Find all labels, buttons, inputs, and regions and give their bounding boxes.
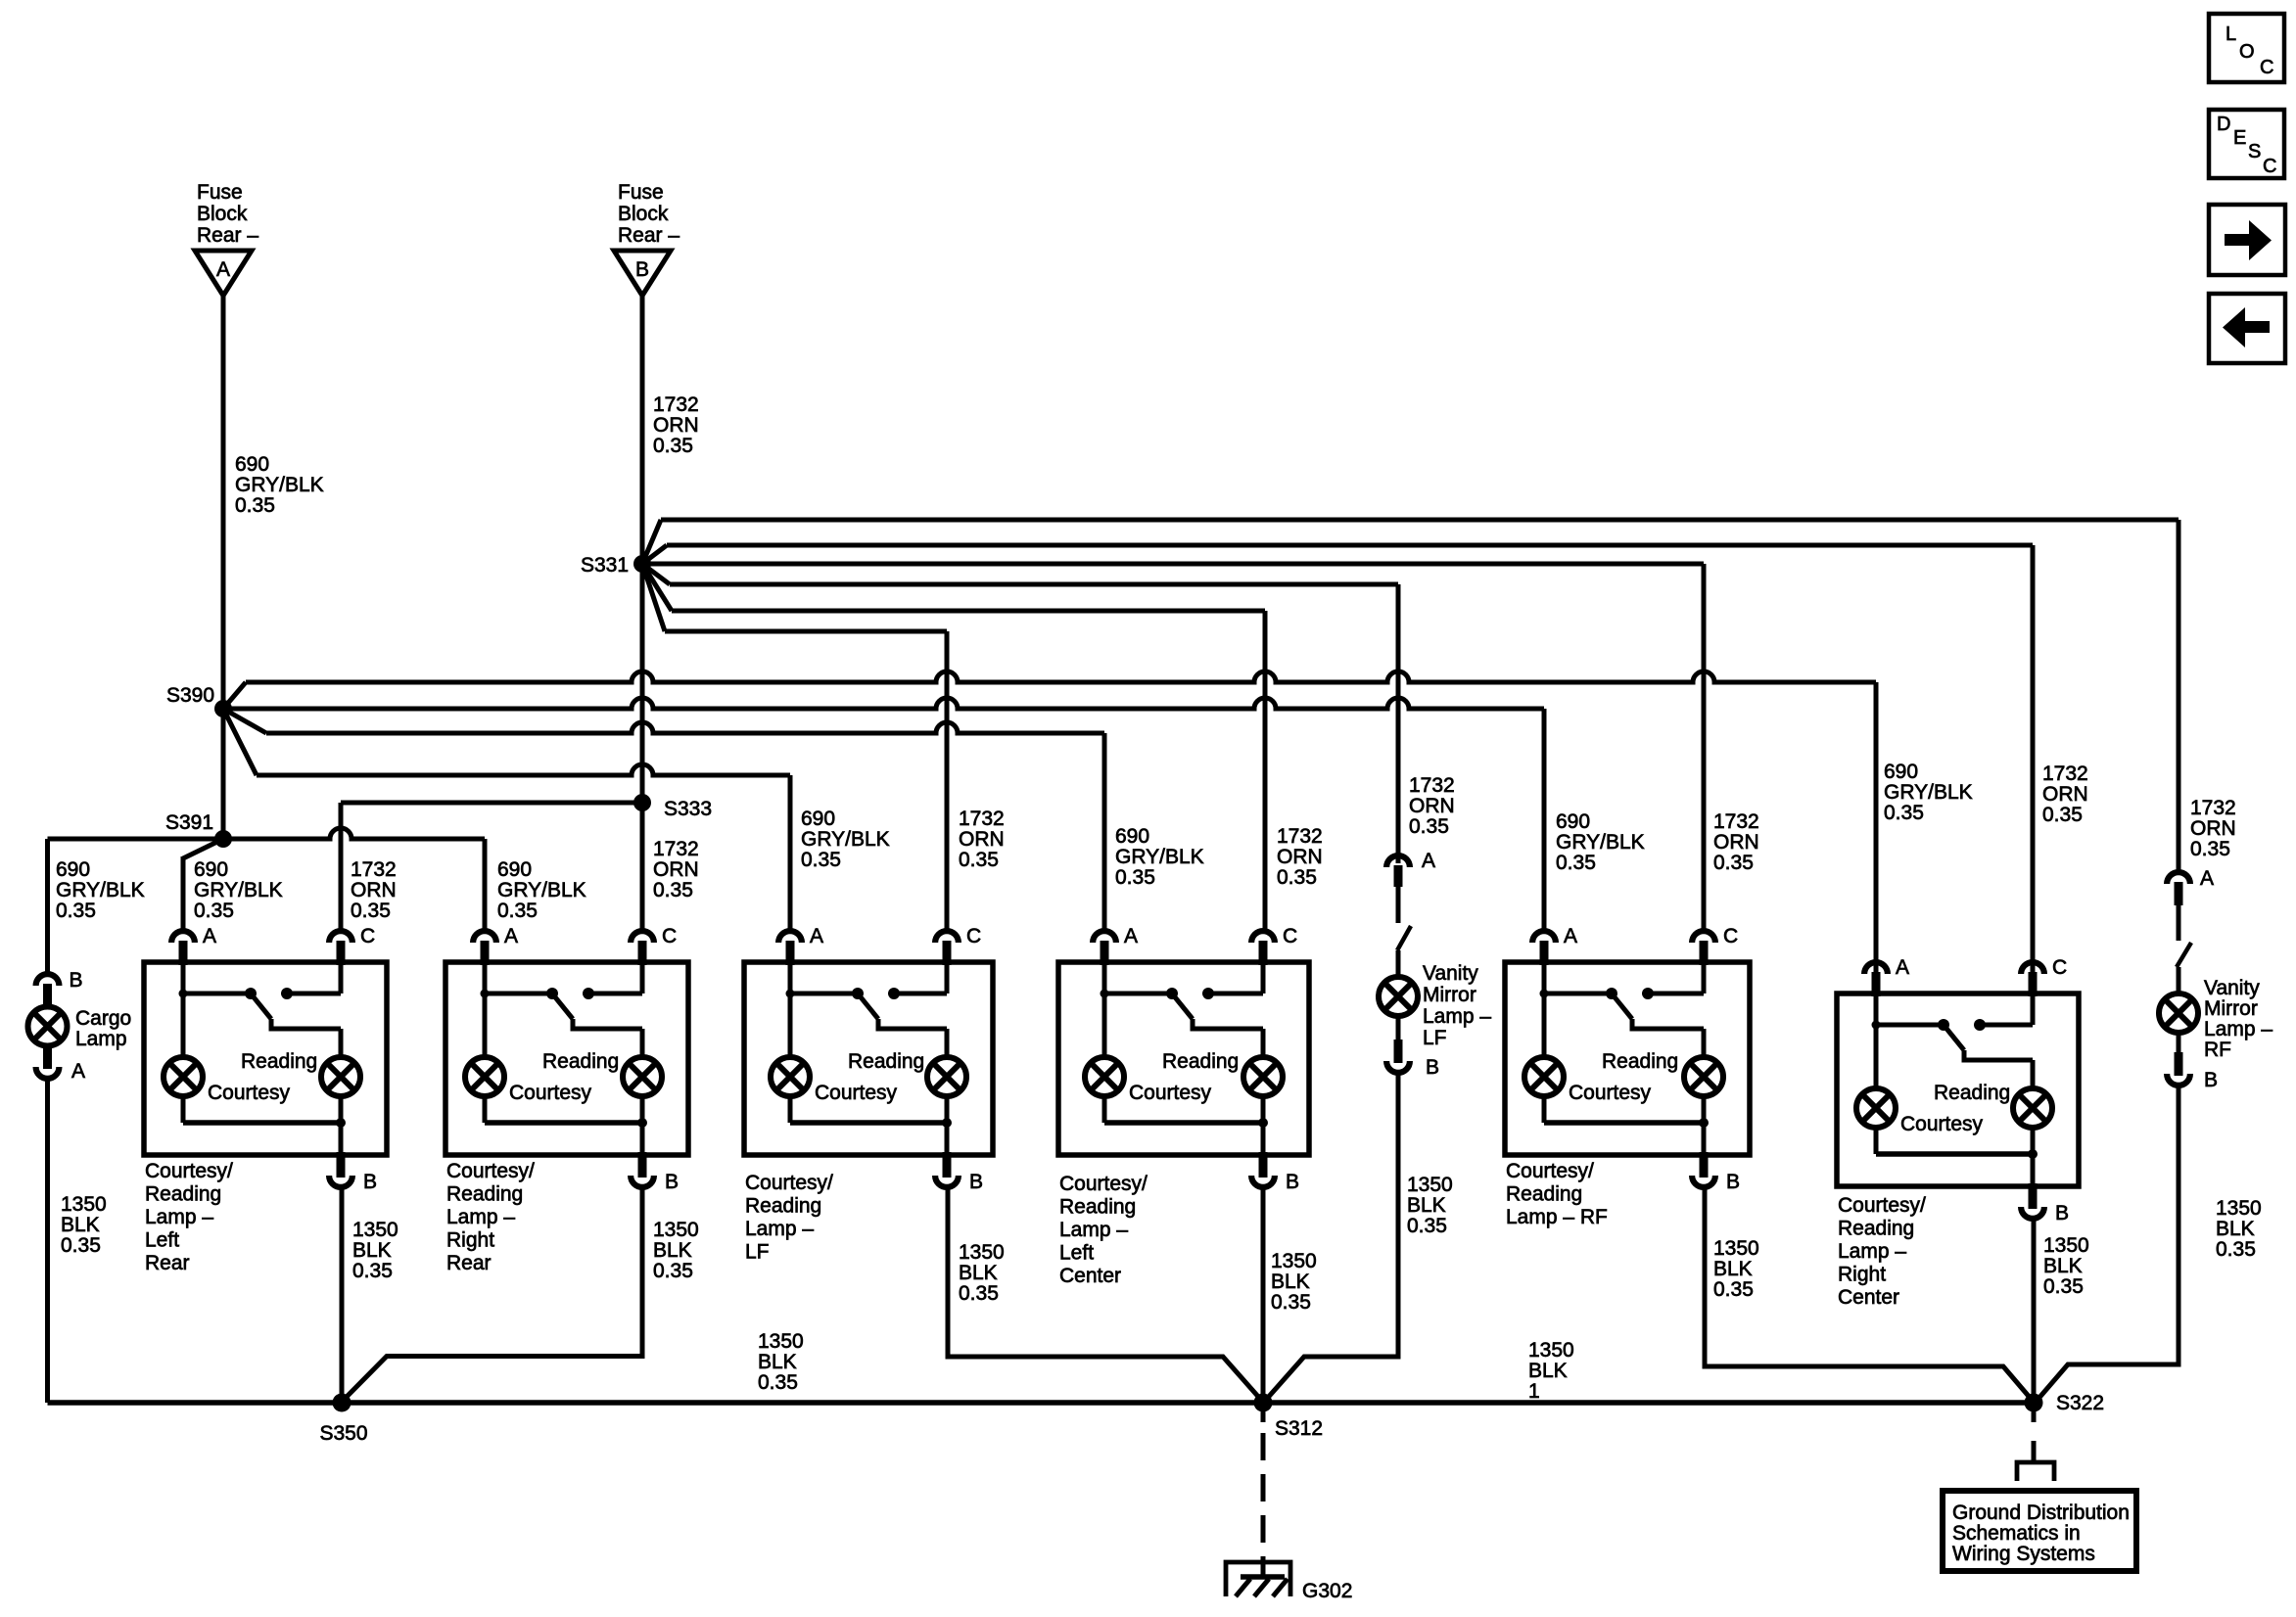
courtesy/reading lamp RF pin B connector xyxy=(1700,1152,1709,1178)
svg-text:BLK: BLK xyxy=(1271,1270,1310,1293)
splice S322 xyxy=(2025,1394,2043,1412)
courtesy/reading lamp Right Center internal ground wire xyxy=(1874,1127,1879,1154)
wire S322 to ground distribution (broken) xyxy=(2032,1411,2037,1422)
svg-text:GRY/BLK: GRY/BLK xyxy=(1115,846,1204,868)
svg-text:0.35: 0.35 xyxy=(352,1260,393,1282)
svg-text:1732: 1732 xyxy=(653,838,699,860)
courtesy/reading lamp Left Center internal ground wire xyxy=(1102,1095,1107,1123)
svg-text:BLK: BLK xyxy=(758,1351,797,1373)
wire S331 to lamp RF pin C (1732 ORN) xyxy=(642,562,1704,567)
svg-text:L: L xyxy=(2226,23,2236,45)
svg-text:1350: 1350 xyxy=(959,1241,1005,1264)
svg-text:690: 690 xyxy=(801,808,835,830)
courtesy/reading lamp RF internal ground wire xyxy=(1542,1095,1547,1123)
svg-text:0.35: 0.35 xyxy=(1713,852,1754,874)
svg-text:0.35: 0.35 xyxy=(2043,1275,2084,1298)
courtesy/reading lamp Right Rear pin C connector xyxy=(638,941,647,965)
svg-text:S391: S391 xyxy=(165,811,213,834)
svg-text:C: C xyxy=(1283,925,1297,947)
vanity mirror lamp LF pin B connector xyxy=(1396,1015,1401,1039)
svg-text:Left: Left xyxy=(145,1229,179,1252)
svg-text:0.35: 0.35 xyxy=(1115,866,1155,889)
courtesy/reading lamp Right Rear courtesy bulb xyxy=(483,993,488,1058)
wire lamp RR pin B to S350 (1350 BLK) xyxy=(345,1189,642,1399)
svg-text:0.35: 0.35 xyxy=(1556,852,1596,874)
svg-text:ORN: ORN xyxy=(351,879,397,901)
svg-text:0.35: 0.35 xyxy=(235,494,275,517)
courtesy/reading lamp Right Rear internal switch xyxy=(483,962,488,993)
courtesy/reading lamp Left Rear reading bulb xyxy=(339,1029,344,1058)
svg-text:1732: 1732 xyxy=(351,858,397,881)
svg-text:0.35: 0.35 xyxy=(1713,1278,1754,1301)
svg-text:0.35: 0.35 xyxy=(758,1371,798,1394)
svg-text:B: B xyxy=(1286,1171,1299,1193)
vanity mirror lamp RF pin A connector xyxy=(2167,872,2190,884)
svg-text:690: 690 xyxy=(497,858,532,881)
svg-text:Reading: Reading xyxy=(745,1195,821,1218)
courtesy/reading lamp RF pin C connector xyxy=(1700,941,1709,965)
splice S350 xyxy=(333,1394,351,1412)
cargo lamp pin B connector xyxy=(36,974,60,986)
svg-text:Lamp –: Lamp – xyxy=(145,1206,213,1228)
svg-text:S350: S350 xyxy=(319,1422,367,1445)
LOC navigation icon xyxy=(2209,14,2284,82)
svg-text:Reading: Reading xyxy=(1602,1050,1678,1073)
svg-text:1350: 1350 xyxy=(1407,1174,1453,1196)
svg-text:Rear –: Rear – xyxy=(197,224,258,247)
svg-text:690: 690 xyxy=(1115,825,1149,848)
svg-text:Courtesy: Courtesy xyxy=(1900,1113,1984,1135)
svg-text:GRY/BLK: GRY/BLK xyxy=(1556,831,1645,854)
svg-text:Mirror: Mirror xyxy=(2204,997,2258,1020)
svg-text:LF: LF xyxy=(1423,1027,1447,1049)
svg-text:BLK: BLK xyxy=(1713,1258,1753,1280)
svg-text:Lamp –: Lamp – xyxy=(1838,1240,1906,1263)
wire S312 to ground G302 (dashed) xyxy=(1261,1411,1266,1422)
svg-text:S333: S333 xyxy=(664,798,712,820)
svg-text:Reading: Reading xyxy=(1838,1218,1914,1240)
svg-text:1350: 1350 xyxy=(2216,1197,2262,1220)
svg-text:Wiring Systems: Wiring Systems xyxy=(1952,1543,2095,1565)
courtesy/reading lamp LF internal switch xyxy=(788,962,793,993)
wire S391 to lamp Left Rear pin A (690 GRY/BLK) xyxy=(183,839,223,858)
svg-text:BLK: BLK xyxy=(1407,1194,1446,1217)
svg-text:1350: 1350 xyxy=(1528,1339,1574,1362)
svg-text:BLK: BLK xyxy=(352,1239,392,1262)
wire S390 to lamp Right Center pin A (690 GRY/BLK) xyxy=(223,682,246,709)
svg-text:Lamp –: Lamp – xyxy=(1423,1005,1491,1028)
splice S390 xyxy=(214,700,232,717)
svg-text:0.35: 0.35 xyxy=(1409,815,1449,838)
svg-text:BLK: BLK xyxy=(959,1262,998,1284)
wire S391 to Cargo Lamp (690 GRY/BLK) xyxy=(48,837,224,842)
svg-text:Rear: Rear xyxy=(145,1252,190,1274)
courtesy/reading lamp Left Rear pin C connector xyxy=(337,941,346,965)
wire cargo lamp ground 1350 BLK xyxy=(45,1080,50,1403)
svg-text:A: A xyxy=(1124,925,1138,947)
svg-text:Reading: Reading xyxy=(241,1050,317,1073)
svg-text:1: 1 xyxy=(1528,1380,1540,1403)
courtesy/reading lamp Left Rear pin B connector xyxy=(337,1152,346,1178)
svg-text:Courtesy: Courtesy xyxy=(1129,1082,1212,1104)
svg-text:690: 690 xyxy=(235,453,269,476)
courtesy/reading lamp LF box outline xyxy=(744,962,993,1155)
svg-text:690: 690 xyxy=(194,858,228,881)
svg-text:Lamp: Lamp xyxy=(75,1028,127,1050)
svg-text:Cargo: Cargo xyxy=(75,1007,131,1030)
svg-text:0.35: 0.35 xyxy=(653,1260,693,1282)
svg-text:0.35: 0.35 xyxy=(1271,1291,1311,1314)
svg-text:1350: 1350 xyxy=(1713,1237,1759,1260)
connector triangle B (Fuse Block Rear) xyxy=(614,251,671,296)
svg-text:0.35: 0.35 xyxy=(61,1234,101,1257)
courtesy/reading lamp Left Center internal switch xyxy=(1102,962,1107,993)
wire vanity LF ground 1350 BLK to S312 xyxy=(1266,1075,1398,1400)
splice S391 xyxy=(214,830,232,848)
wire S331 to lamp LF pin C (1732 ORN) xyxy=(642,564,665,631)
wire S331 to lamp Right Center pin C (1732 ORN) xyxy=(642,545,667,564)
svg-text:ORN: ORN xyxy=(2190,817,2236,840)
svg-text:A: A xyxy=(1422,850,1435,872)
svg-text:0.35: 0.35 xyxy=(351,900,391,922)
wire 1732 ORN from fuse B down through S331 and S333 to lamp RR pin C xyxy=(640,296,645,931)
svg-text:GRY/BLK: GRY/BLK xyxy=(235,474,324,496)
vanity mirror lamp LF pin A connector xyxy=(1386,855,1410,867)
courtesy/reading lamp Right Rear internal ground wire xyxy=(483,1095,488,1123)
svg-text:690: 690 xyxy=(1556,810,1590,833)
courtesy/reading lamp Right Rear pin A connector xyxy=(481,941,490,965)
svg-text:ORN: ORN xyxy=(1277,846,1323,868)
forward arrow navigation icon xyxy=(2209,205,2285,275)
svg-text:1732: 1732 xyxy=(653,393,699,416)
svg-text:BLK: BLK xyxy=(2216,1218,2255,1240)
wire S390 to lamp LF pin A (690 GRY/BLK) xyxy=(223,709,257,775)
wire lamp RF pin B to S322 (1350 BLK) xyxy=(1705,1189,2032,1400)
courtesy/reading lamp Right Center pin C connector xyxy=(2029,972,2038,996)
svg-text:0.35: 0.35 xyxy=(2216,1238,2256,1261)
svg-text:Fuse: Fuse xyxy=(618,181,664,204)
svg-text:BLK: BLK xyxy=(1528,1360,1568,1382)
svg-text:1350: 1350 xyxy=(1271,1250,1317,1272)
svg-text:1732: 1732 xyxy=(1409,774,1455,797)
courtesy/reading lamp LF pin C connector xyxy=(943,941,952,965)
wire S390 to lamp Left Center pin A (690 GRY/BLK) xyxy=(223,709,266,733)
svg-text:B: B xyxy=(1426,1056,1439,1079)
svg-text:0.35: 0.35 xyxy=(959,849,999,871)
svg-text:1732: 1732 xyxy=(2190,797,2236,819)
splice S312 xyxy=(1254,1394,1273,1412)
wire vanity RF ground 1350 BLK to S322 xyxy=(2038,1087,2179,1400)
svg-text:A: A xyxy=(810,925,823,947)
courtesy/reading lamp Left Center pin C connector xyxy=(1259,941,1268,965)
svg-text:690: 690 xyxy=(56,858,90,881)
splice S331 xyxy=(633,555,651,573)
svg-text:0.35: 0.35 xyxy=(1277,866,1317,889)
backward arrow navigation icon xyxy=(2209,294,2285,363)
courtesy/reading lamp RF pin A connector xyxy=(1540,941,1549,965)
courtesy/reading lamp Left Rear internal switch xyxy=(181,962,186,993)
svg-text:Center: Center xyxy=(1059,1265,1121,1287)
svg-text:S390: S390 xyxy=(166,684,214,707)
svg-text:Vanity: Vanity xyxy=(2204,977,2260,999)
svg-text:ORN: ORN xyxy=(959,828,1005,851)
off-page connector bracket at S322 xyxy=(2017,1462,2054,1481)
svg-text:1732: 1732 xyxy=(1713,810,1759,833)
svg-text:1350: 1350 xyxy=(758,1330,804,1353)
courtesy/reading lamp Right Center box outline xyxy=(1837,993,2079,1186)
svg-text:C: C xyxy=(1723,925,1738,947)
courtesy/reading lamp Left Rear courtesy bulb xyxy=(181,993,186,1058)
vanity mirror lamp RF pin B connector xyxy=(2177,1032,2181,1052)
svg-text:0.35: 0.35 xyxy=(1407,1215,1447,1237)
svg-text:Reading: Reading xyxy=(848,1050,924,1073)
svg-text:Left: Left xyxy=(1059,1242,1094,1265)
svg-text:Lamp –: Lamp – xyxy=(745,1218,814,1240)
svg-text:Center: Center xyxy=(1838,1286,1899,1309)
svg-text:1350: 1350 xyxy=(352,1219,398,1241)
svg-text:ORN: ORN xyxy=(1713,831,1759,854)
svg-text:ORN: ORN xyxy=(2042,783,2088,806)
svg-text:Fuse: Fuse xyxy=(197,181,243,204)
svg-text:1732: 1732 xyxy=(959,808,1005,830)
svg-text:Block: Block xyxy=(618,203,669,225)
svg-text:B: B xyxy=(969,1171,983,1193)
svg-text:GRY/BLK: GRY/BLK xyxy=(1884,781,1973,804)
svg-text:Lamp –: Lamp – xyxy=(1059,1219,1128,1241)
svg-text:A: A xyxy=(2200,867,2214,890)
svg-text:Vanity: Vanity xyxy=(1423,962,1478,985)
svg-text:Block: Block xyxy=(197,203,248,225)
svg-text:BLK: BLK xyxy=(653,1239,692,1262)
svg-text:Courtesy/: Courtesy/ xyxy=(446,1160,535,1182)
svg-text:Courtesy/: Courtesy/ xyxy=(1506,1160,1594,1182)
svg-text:Courtesy/: Courtesy/ xyxy=(1838,1194,1926,1217)
courtesy/reading lamp Right Center internal switch xyxy=(1874,993,1879,1025)
wire S391 to lamp Right Rear pin A (690 GRY/BLK) xyxy=(223,828,485,839)
svg-text:0.35: 0.35 xyxy=(194,900,234,922)
svg-text:G302: G302 xyxy=(1302,1580,1352,1602)
svg-text:RF: RF xyxy=(2204,1039,2231,1061)
vanity mirror lamp LF switch xyxy=(1396,887,1401,923)
svg-text:Lamp –: Lamp – xyxy=(446,1206,515,1228)
wire lamp Right Center pin B to S322 (1350 BLK) xyxy=(2032,1221,2037,1403)
ground symbol G302 xyxy=(1261,1556,1266,1579)
courtesy/reading lamp Right Rear pin B connector xyxy=(638,1152,647,1178)
svg-text:Ground Distribution: Ground Distribution xyxy=(1952,1501,2130,1524)
courtesy/reading lamp LF reading bulb xyxy=(945,1029,950,1058)
svg-text:0.35: 0.35 xyxy=(1884,802,1924,824)
courtesy/reading lamp Right Center reading bulb xyxy=(2031,1060,2036,1089)
svg-text:Reading: Reading xyxy=(1934,1082,2010,1104)
svg-text:Courtesy: Courtesy xyxy=(1569,1082,1652,1104)
svg-text:Courtesy: Courtesy xyxy=(509,1082,592,1104)
courtesy/reading lamp RF internal switch xyxy=(1542,962,1547,993)
svg-text:Courtesy/: Courtesy/ xyxy=(745,1172,833,1194)
svg-text:0.35: 0.35 xyxy=(2042,804,2083,826)
ground distribution reference box xyxy=(1943,1491,2136,1571)
courtesy/reading lamp Left Center box outline xyxy=(1058,962,1309,1155)
svg-text:B: B xyxy=(70,969,83,992)
svg-text:A: A xyxy=(1896,956,1909,979)
svg-text:GRY/BLK: GRY/BLK xyxy=(497,879,586,901)
svg-text:LF: LF xyxy=(745,1241,770,1264)
vanity mirror lamp RF switch xyxy=(2177,905,2181,941)
svg-text:0.35: 0.35 xyxy=(2190,838,2230,860)
svg-text:Rear –: Rear – xyxy=(618,224,679,247)
svg-text:C: C xyxy=(2263,156,2276,177)
vanity mirror lamp LF bulb xyxy=(1396,950,1401,978)
courtesy/reading lamp Left Center pin A connector xyxy=(1101,941,1109,965)
svg-text:Right: Right xyxy=(446,1229,494,1252)
svg-text:0.35: 0.35 xyxy=(653,879,693,901)
svg-text:0.35: 0.35 xyxy=(801,849,841,871)
svg-text:Courtesy: Courtesy xyxy=(208,1082,291,1104)
svg-text:Rear: Rear xyxy=(446,1252,492,1274)
svg-text:A: A xyxy=(504,925,518,947)
svg-text:690: 690 xyxy=(1884,761,1918,783)
wire lamp Left Center pin B to S312 (1350 BLK) xyxy=(1261,1189,1266,1403)
wire lamp LR pin B to S350 (1350 BLK) xyxy=(340,1189,345,1403)
svg-text:BLK: BLK xyxy=(61,1214,100,1236)
svg-text:Lamp –: Lamp – xyxy=(2204,1018,2273,1040)
splice S333 xyxy=(633,794,651,811)
vanity mirror lamp RF bulb xyxy=(2177,967,2181,994)
svg-text:Reading: Reading xyxy=(1059,1196,1136,1219)
cargo lamp bulb xyxy=(28,1007,68,1046)
svg-text:E: E xyxy=(2233,127,2246,149)
svg-text:S322: S322 xyxy=(2056,1392,2104,1414)
svg-text:B: B xyxy=(363,1171,377,1193)
wire S390 to lamp RF pin A (690 GRY/BLK) xyxy=(223,698,1544,709)
svg-text:A: A xyxy=(203,925,216,947)
svg-text:0.35: 0.35 xyxy=(56,900,96,922)
svg-text:C: C xyxy=(966,925,981,947)
courtesy/reading lamp Left Rear internal ground wire xyxy=(181,1095,186,1123)
svg-text:0.35: 0.35 xyxy=(497,900,538,922)
svg-text:GRY/BLK: GRY/BLK xyxy=(801,828,890,851)
svg-text:1350: 1350 xyxy=(653,1219,699,1241)
courtesy/reading lamp Left Rear box outline xyxy=(144,962,387,1155)
wire S331 to Vanity Mirror Lamp RF (1732 ORN) xyxy=(642,520,661,564)
svg-text:S: S xyxy=(2248,141,2261,162)
svg-text:B: B xyxy=(635,258,649,281)
svg-text:ORN: ORN xyxy=(653,858,699,881)
svg-text:A: A xyxy=(1564,925,1577,947)
wire 690 GRY/BLK from fuse A down to S390 and S391 xyxy=(221,296,226,839)
courtesy/reading lamp Left Center reading bulb xyxy=(1261,1029,1266,1058)
svg-text:O: O xyxy=(2239,41,2255,63)
svg-text:0.35: 0.35 xyxy=(959,1282,999,1305)
svg-text:B: B xyxy=(665,1171,679,1193)
svg-text:S331: S331 xyxy=(581,554,629,577)
courtesy/reading lamp RF courtesy bulb xyxy=(1542,993,1547,1058)
svg-text:Mirror: Mirror xyxy=(1423,984,1476,1006)
svg-text:ORN: ORN xyxy=(1409,795,1455,817)
svg-text:ORN: ORN xyxy=(653,414,699,437)
cargo lamp pin A connector xyxy=(43,1045,52,1069)
svg-text:1732: 1732 xyxy=(1277,825,1323,848)
svg-text:Reading: Reading xyxy=(145,1183,221,1206)
svg-text:B: B xyxy=(2055,1202,2069,1224)
courtesy/reading lamp Left Rear pin A connector xyxy=(179,941,188,965)
courtesy/reading lamp Right Center pin B connector xyxy=(2029,1183,2038,1209)
svg-text:Reading: Reading xyxy=(1162,1050,1239,1073)
svg-text:Courtesy/: Courtesy/ xyxy=(1059,1173,1148,1195)
svg-text:Reading: Reading xyxy=(446,1183,523,1206)
svg-text:A: A xyxy=(216,258,230,281)
wire S331 to Vanity Mirror Lamp LF (1732 ORN) xyxy=(642,564,670,584)
courtesy/reading lamp LF internal ground wire xyxy=(788,1095,793,1123)
svg-text:Courtesy: Courtesy xyxy=(815,1082,898,1104)
svg-text:C: C xyxy=(662,925,677,947)
courtesy/reading lamp LF pin A connector xyxy=(786,941,795,965)
svg-text:Reading: Reading xyxy=(542,1050,619,1073)
svg-text:1350: 1350 xyxy=(61,1193,107,1216)
svg-text:1350: 1350 xyxy=(2043,1234,2089,1257)
svg-text:Courtesy/: Courtesy/ xyxy=(145,1160,233,1182)
courtesy/reading lamp RF reading bulb xyxy=(1702,1029,1707,1058)
svg-text:A: A xyxy=(71,1060,85,1083)
svg-text:D: D xyxy=(2217,114,2230,135)
connector triangle A (Fuse Block Rear) xyxy=(195,251,252,296)
svg-text:C: C xyxy=(2260,57,2273,78)
svg-text:S312: S312 xyxy=(1275,1417,1323,1440)
wire S333 to lamp Left Rear pin C (1732 ORN) xyxy=(341,801,642,806)
courtesy/reading lamp Left Center pin B connector xyxy=(1259,1152,1268,1178)
svg-text:Reading: Reading xyxy=(1506,1183,1582,1206)
courtesy/reading lamp LF courtesy bulb xyxy=(788,993,793,1058)
courtesy/reading lamp Right Rear box outline xyxy=(445,962,688,1155)
svg-text:Right: Right xyxy=(1838,1264,1886,1286)
svg-text:Lamp – RF: Lamp – RF xyxy=(1506,1206,1608,1228)
ground bus wire 1350 BLK from cargo lamp through S350 S312 to S322 xyxy=(48,1400,2035,1406)
courtesy/reading lamp Right Center courtesy bulb xyxy=(1874,1025,1879,1089)
svg-text:Schematics in: Schematics in xyxy=(1952,1522,2081,1545)
courtesy/reading lamp Right Rear reading bulb xyxy=(640,1029,645,1058)
svg-text:C: C xyxy=(360,925,375,947)
svg-text:B: B xyxy=(2204,1069,2218,1091)
courtesy/reading lamp LF pin B connector xyxy=(943,1152,952,1178)
svg-text:GRY/BLK: GRY/BLK xyxy=(56,879,145,901)
svg-text:C: C xyxy=(2052,956,2067,979)
courtesy/reading lamp Left Center courtesy bulb xyxy=(1102,993,1107,1058)
svg-text:BLK: BLK xyxy=(2043,1255,2083,1277)
svg-text:1732: 1732 xyxy=(2042,762,2088,785)
svg-text:B: B xyxy=(1726,1171,1740,1193)
svg-text:GRY/BLK: GRY/BLK xyxy=(194,879,283,901)
svg-text:0.35: 0.35 xyxy=(653,435,693,457)
courtesy/reading lamp RF box outline xyxy=(1505,962,1750,1155)
wire S331 to lamp Left Center pin C (1732 ORN) xyxy=(642,564,672,611)
DESC navigation icon xyxy=(2209,110,2284,178)
courtesy/reading lamp Right Center pin A connector xyxy=(1872,972,1881,996)
wire lamp LF pin B to S312 (1350 BLK) xyxy=(948,1189,1260,1399)
